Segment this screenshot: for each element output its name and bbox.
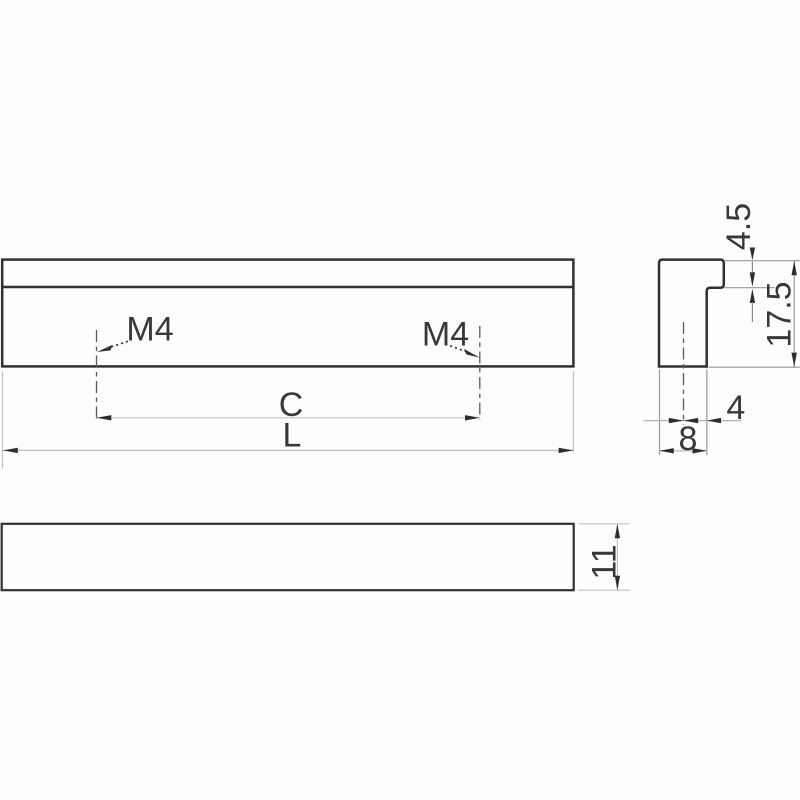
svg-text:11: 11 (586, 544, 624, 579)
front view lip edge line (2, 286, 573, 288)
label L (283, 417, 302, 455)
svg-text:M4: M4 (126, 311, 173, 349)
label C (279, 386, 304, 424)
extension line profile left (x659.5) (659, 370, 661, 456)
hole centerline left (96, 330, 98, 420)
dimension 4 (bottom right) (644, 418, 742, 423)
svg-text:8: 8 (679, 420, 698, 458)
profile centerline (683, 322, 685, 425)
dimension line L (3, 448, 573, 453)
label M4 left (126, 311, 173, 349)
extension line L left (2, 372, 4, 469)
svg-text:4.5: 4.5 (720, 203, 758, 250)
extension line 11 bottom (578, 589, 630, 591)
extension line profile right (x706.8) (706, 370, 708, 456)
label 11 (586, 544, 624, 579)
dimension line 11 (615, 524, 620, 590)
bottom view outline (2, 524, 574, 590)
label 17.5 (761, 281, 799, 347)
dimension line 8 (660, 448, 707, 453)
extension line top right (y260) (725, 260, 800, 262)
hole centerline right (479, 326, 481, 420)
leader M4 right (450, 346, 480, 358)
label 4.5 (720, 203, 758, 250)
front view outline (2, 260, 573, 367)
extension line step (y287.7) (725, 287, 776, 289)
dimension line 17.5 (792, 261, 797, 367)
svg-text:17.5: 17.5 (761, 281, 799, 347)
svg-text:M4: M4 (422, 316, 469, 354)
extension line L/C right (572, 371, 574, 453)
leader M4 left (97, 341, 128, 352)
dimension 4.5 (750, 248, 755, 323)
extension line 11 top (578, 523, 630, 525)
label 4 (bottom) (726, 389, 745, 427)
extension line bottom right (y367) (709, 366, 800, 368)
side profile outline (659, 260, 724, 367)
label M4 right (422, 316, 469, 354)
label 8 (679, 420, 698, 458)
dimension line C (97, 415, 480, 420)
svg-text:4: 4 (726, 389, 745, 427)
svg-text:L: L (283, 417, 302, 455)
